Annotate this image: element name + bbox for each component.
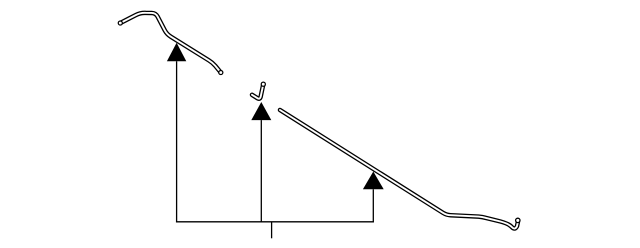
rod segment 1 right end opening bbox=[219, 70, 223, 74]
rod segment 1 (upper bent rod, outer outline) bbox=[120, 13, 221, 73]
rod segment 2 (long lower rod with hooked end) bbox=[280, 110, 518, 229]
callout arrow 2 (middle, pointing to clip) bbox=[251, 102, 271, 222]
callout arrow 3 (right, pointing to rod segment 2) bbox=[363, 172, 384, 222]
clip top end opening bbox=[261, 82, 265, 86]
leader stub (to part number, below bracket) bbox=[271, 222, 273, 239]
callout arrow 1 (left, pointing to rod segment 1) bbox=[167, 43, 186, 222]
rod segment 1 left end opening bbox=[118, 21, 122, 25]
rod segment 2 hook end opening bbox=[516, 218, 520, 222]
bracket line (horizontal connector) bbox=[176, 221, 374, 223]
clip (small hook piece, middle) bbox=[252, 84, 263, 99]
